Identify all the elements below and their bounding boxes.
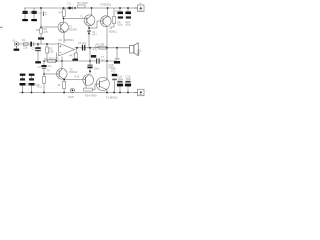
capacitor C6 series output coupling <box>82 45 85 51</box>
svg-text:T3 BD911: T3 BD911 <box>100 2 112 6</box>
svg-text:BD911: BD911 <box>109 29 117 33</box>
svg-text:100n: 100n <box>125 23 131 27</box>
svg-text:R14 0R39: R14 0R39 <box>85 94 97 98</box>
capacitor C12 top right 2 <box>125 12 131 19</box>
svg-text:22K: 22K <box>23 46 28 50</box>
resistor R7 fb upper <box>74 53 77 58</box>
resistor R2 input shunt <box>46 47 49 53</box>
ground above C16 <box>29 74 35 76</box>
ground under C2 <box>35 61 41 63</box>
svg-text:10u: 10u <box>26 83 31 87</box>
svg-text:NE5534: NE5534 <box>64 38 74 42</box>
capacitor C17 bottom x114 <box>112 74 117 80</box>
wire Tf emitter <box>106 90 108 93</box>
svg-text:47u: 47u <box>111 70 116 74</box>
capacitor C1 input electrolytic <box>30 42 34 47</box>
diode D1 on top rail <box>69 7 72 10</box>
svg-text:C6: C6 <box>37 65 41 69</box>
svg-text:+V: +V <box>139 1 143 5</box>
svg-text:10u: 10u <box>28 11 33 15</box>
svg-text:100u: 100u <box>117 77 123 81</box>
wire top rail <box>24 7 138 9</box>
capacitor C16 bottom left 2 <box>29 78 35 85</box>
resistor R10 Td emitter <box>63 81 66 88</box>
resistor R5 rail decouple <box>78 5 86 8</box>
wire Tf collector <box>106 48 108 80</box>
resistor R7 from rail x114 <box>113 8 115 16</box>
svg-text:D1: D1 <box>68 2 72 6</box>
wire R3 to Ta base <box>41 26 58 28</box>
wire Ta emitter to opamp <box>63 33 65 44</box>
svg-text:BD912: BD912 <box>70 70 78 74</box>
resistor R1 series input <box>24 43 29 46</box>
ground zobel right <box>115 58 120 59</box>
capacitor C15 bottom left 1 <box>20 78 26 85</box>
wire Td base <box>44 73 56 75</box>
svg-text:R4: R4 <box>59 10 63 14</box>
svg-text:4K7: 4K7 <box>69 54 74 58</box>
wire opamp inv input <box>56 53 58 62</box>
svg-text:GND: GND <box>68 95 74 99</box>
resistor R4 vas load <box>62 9 65 17</box>
wire feedback line <box>44 60 96 62</box>
transistor Q1 <box>58 22 68 32</box>
capacitor C2 input shunt <box>35 47 41 51</box>
resistor R3 bias upper <box>40 28 43 33</box>
wire bottom right x114 <box>114 80 116 92</box>
resistor R6 feedback <box>48 60 56 63</box>
svg-text:T6 BD912: T6 BD912 <box>106 96 118 100</box>
svg-text:R1: R1 <box>22 38 26 42</box>
svg-text:IN: IN <box>13 39 16 43</box>
terminal -V <box>138 89 144 96</box>
svg-text:R8 10R: R8 10R <box>96 43 105 47</box>
resistor R9 x44 lower <box>43 76 46 83</box>
svg-text:R7: R7 <box>116 10 120 14</box>
wire Tb collector <box>91 8 93 15</box>
ground above C15 <box>20 74 26 76</box>
svg-text:47u: 47u <box>93 48 98 52</box>
capacitor C11 top right 1 <box>117 12 123 19</box>
wire opamp vminus <box>61 57 63 69</box>
svg-text:4V7: 4V7 <box>92 33 97 37</box>
wire top left cap stubs <box>24 8 26 11</box>
wire C2 leg <box>37 44 39 47</box>
svg-text:R3: R3 <box>36 28 40 32</box>
svg-text:C4 2u2: C4 2u2 <box>78 41 87 45</box>
svg-text:100u: 100u <box>117 23 123 27</box>
labels <box>13 1 143 99</box>
trimmer mark near x41 <box>42 12 44 17</box>
wire Tc collector <box>107 8 109 16</box>
op-amp U1 <box>59 43 75 56</box>
wire R2 leg <box>46 44 48 47</box>
wire Ta collector <box>63 17 65 23</box>
svg-text:R10 22K: R10 22K <box>49 56 59 60</box>
capacitor C13 bottom right 1 <box>117 81 123 87</box>
wire Tc emitter <box>106 27 108 48</box>
svg-text:100n: 100n <box>37 13 43 15</box>
svg-text:8R: 8R <box>137 52 140 56</box>
wire output down at x117 <box>116 48 118 58</box>
svg-text:100n: 100n <box>94 67 100 71</box>
capacitor C5 top-left decouple 2 <box>32 11 37 14</box>
speaker LS1 <box>130 43 139 56</box>
stray mark left edge <box>0 26 3 29</box>
transistor Q3 <box>100 16 111 27</box>
wire input line <box>19 43 58 45</box>
svg-text:T1: T1 <box>80 15 84 19</box>
terminal +V <box>138 5 144 12</box>
wire Tb emitter node <box>88 26 90 31</box>
capacitor C10 fb upper plate bar <box>72 59 78 61</box>
wire x90 down to Te <box>89 48 91 65</box>
wire bottom left cap stubs <box>22 76 24 78</box>
capacitor C7 on x90 upper electrolytic <box>91 55 96 58</box>
svg-text:100n: 100n <box>125 77 131 81</box>
capacitor C16b series on feedback line <box>96 58 97 63</box>
node dots <box>22 7 129 93</box>
svg-text:47u: 47u <box>47 64 52 68</box>
resistor R8 output LR <box>99 46 107 49</box>
ground under C5 <box>31 19 37 21</box>
wire terminal stubs <box>134 7 138 9</box>
transistor Q6 <box>96 77 109 90</box>
svg-text:R9: R9 <box>44 57 48 61</box>
svg-text:R12: R12 <box>75 75 80 79</box>
capacitor C4 top-left decouple 1 <box>23 11 28 14</box>
svg-text:BC546: BC546 <box>69 27 77 31</box>
wire fb R box from output <box>75 48 77 53</box>
ground under C4 <box>22 19 28 21</box>
svg-text:C7: C7 <box>101 55 105 59</box>
capacitor C3 bias (bar above input line) <box>38 37 44 39</box>
wire bottom rail <box>19 92 138 94</box>
wire top right cap stubs <box>119 8 121 12</box>
ground under input jack <box>14 49 20 51</box>
input jack J1 <box>14 42 18 49</box>
svg-text:IC1: IC1 <box>58 38 63 42</box>
transistor Q2 <box>84 15 95 26</box>
transistor Q4 <box>56 69 67 80</box>
wire x44 shunt leg <box>43 61 45 65</box>
svg-text:47K: 47K <box>44 30 49 34</box>
capacitor C9 x44 fb <box>41 65 46 69</box>
transistor Q5 <box>83 74 94 86</box>
resistor R11 Te emitter <box>84 88 93 91</box>
inductor L1 on output line <box>95 47 100 48</box>
capacitor C8 x90 lower <box>87 65 92 69</box>
svg-text:1K: 1K <box>57 83 60 87</box>
svg-text:C2: C2 <box>31 47 35 51</box>
wire Td emitter down <box>63 80 65 82</box>
wire output line <box>75 47 130 49</box>
wire bias column x41 <box>40 8 42 28</box>
wire Ta base line to Tb <box>64 18 85 20</box>
svg-text:T4: T4 <box>46 69 50 73</box>
resistor R7 box <box>113 16 116 23</box>
wire Te base from Td emitter <box>66 79 83 81</box>
wire Te emitter to Tf base <box>85 86 87 89</box>
wire bottom caps right stubs <box>119 86 121 92</box>
svg-text:10u: 10u <box>35 83 40 87</box>
connector bottom center <box>70 88 74 92</box>
svg-text:R5 100R: R5 100R <box>77 1 87 5</box>
capacitor C14 bottom right 2 <box>125 81 131 87</box>
svg-text:22K: 22K <box>49 49 54 53</box>
zener D2 <box>87 31 91 35</box>
